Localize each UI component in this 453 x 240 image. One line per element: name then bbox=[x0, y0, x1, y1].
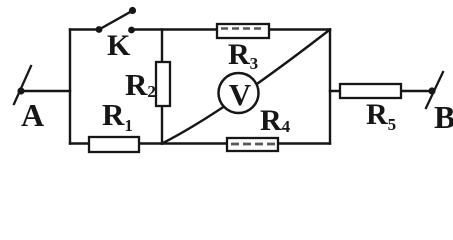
svg-text:V: V bbox=[229, 77, 252, 112]
svg-text:K: K bbox=[107, 29, 131, 62]
svg-text:B: B bbox=[434, 99, 453, 135]
svg-text:A: A bbox=[21, 97, 44, 133]
